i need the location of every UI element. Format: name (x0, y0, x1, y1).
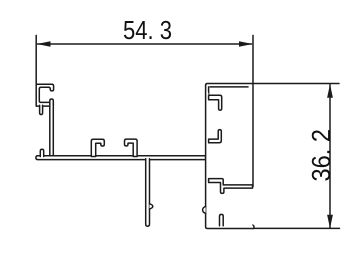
extension line left (x=36.2) (35, 35, 37, 84)
arrowhead right of 54.3 (239, 41, 253, 47)
small up-finger at web left end (40, 149, 43, 156)
bottom stem (146, 159, 150, 226)
extension line right / profile right wall line (x=253) (252, 35, 254, 186)
svg-text:54. 3: 54. 3 (123, 15, 172, 45)
extension line top for 36.2 (doubles as box top outer line) (206, 84, 339, 86)
C-channel top-left of profile (36, 84, 53, 106)
dimension line 36.2 (329, 85, 331, 228)
dimension line 54.3 (38, 43, 252, 45)
box inner top line (210, 86, 248, 88)
svg-text:36. 2: 36. 2 (306, 129, 336, 182)
box shelf with step and down-finger (209, 179, 253, 194)
box hook B (lower, lip up) (209, 130, 222, 143)
extension line bottom for 36.2 (254, 227, 340, 229)
box left wall inner line + flange top line + flange right cap (209, 87, 254, 229)
box hook A (upper, lip down) (209, 95, 222, 110)
stem nub (right side) (150, 204, 153, 209)
main left vertical wall (cap at top y=99) (50, 99, 54, 157)
leg below C-channel (40, 105, 43, 114)
box wall outer nub (203, 206, 206, 213)
horizontal web (36, 156, 206, 160)
web hook 2 (opens left-down, mirror) (125, 139, 138, 156)
box outer: left wall + bottom flange outer (206, 85, 254, 228)
arrowhead up of 36.2 (327, 84, 333, 98)
arrowhead down of 36.2 (327, 215, 333, 229)
web hook 1 (opens right-down) (91, 139, 104, 156)
arrowhead left of 54.3 (37, 41, 51, 47)
flange up-finger (220, 214, 224, 225)
